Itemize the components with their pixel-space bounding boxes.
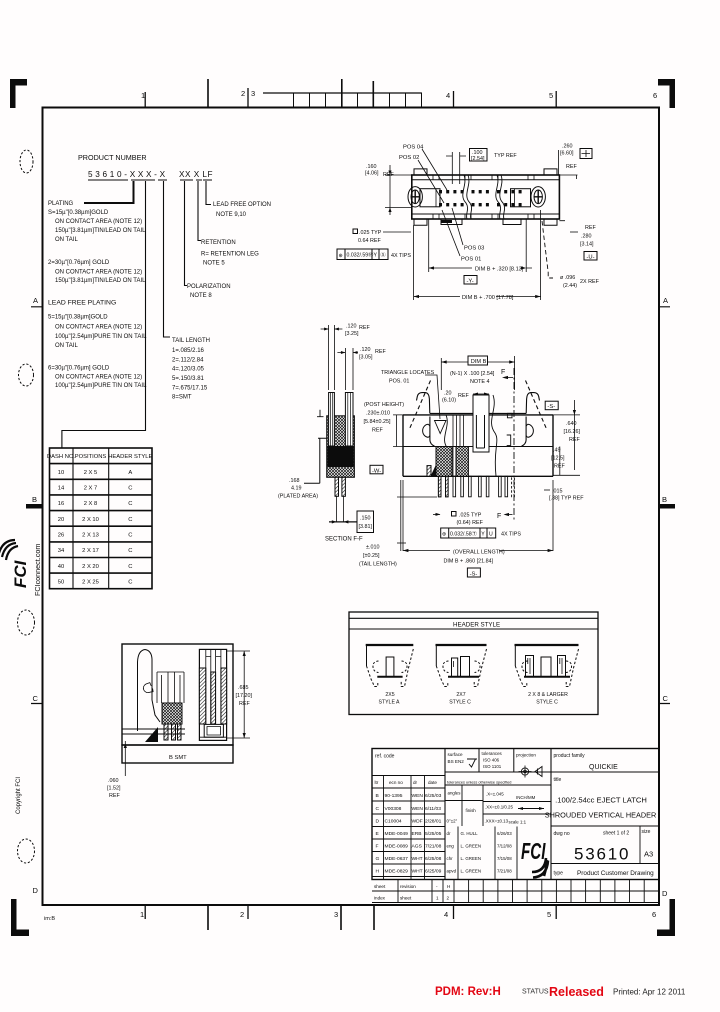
svg-text:2 X 17: 2 X 17: [82, 548, 99, 554]
dim .260 top right: [560, 144, 577, 171]
svg-text:(2.44): (2.44): [563, 283, 577, 289]
svg-text:DIM B + .860 [21.84]: DIM B + .860 [21.84]: [444, 559, 494, 565]
svg-text:150µ"[3.81µm]TIN/LEAD ON TAIL: 150µ"[3.81µm]TIN/LEAD ON TAIL: [55, 228, 146, 234]
latch plate right: [511, 189, 531, 207]
svg-text:A: A: [33, 296, 38, 305]
svg-text:ISO 1101: ISO 1101: [483, 764, 502, 769]
svg-text:SHROUDED VERTICAL HEADER: SHROUDED VERTICAL HEADER: [545, 811, 657, 820]
section FF pins: [335, 477, 339, 496]
bottom zone numbers: [140, 910, 656, 919]
svg-text:0.032/.58Ⓣ: 0.032/.58Ⓣ: [450, 530, 477, 538]
datum -S- right: [545, 401, 558, 410]
svg-text:(0.64) REF: (0.64) REF: [457, 520, 484, 526]
type cell: [554, 871, 564, 877]
svg-text:POS 02: POS 02: [399, 155, 419, 161]
svg-text:8=SMT: 8=SMT: [172, 395, 192, 401]
svg-text:±.010: ±.010: [366, 545, 379, 551]
front view hatched cut: [436, 447, 452, 477]
svg-text:Y: Y: [481, 532, 485, 538]
svg-text:[5.84±0.25]: [5.84±0.25]: [364, 419, 391, 425]
svg-text:5=.150/3.81: 5=.150/3.81: [172, 376, 205, 382]
svg-text:C: C: [663, 694, 669, 703]
section FF datum tick: [317, 410, 324, 417]
svg-text:4=.120/3.05: 4=.120/3.05: [172, 367, 205, 373]
svg-text:DIM B + .700 [17.78]: DIM B + .700 [17.78]: [462, 295, 514, 301]
svg-text:MDE-0637: MDE-0637: [385, 856, 409, 862]
front view triangle pos1: [435, 421, 447, 434]
svg-text:6=30µ"[0.76µm] GOLD: 6=30µ"[0.76µm] GOLD: [48, 366, 110, 372]
svg-text:0.032/.59Ⓜ: 0.032/.59Ⓜ: [347, 251, 374, 259]
svg-text:ON TAIL: ON TAIL: [55, 343, 78, 349]
svg-text:6/26/03: 6/26/03: [497, 831, 512, 836]
dim 025 typ pins: [457, 513, 484, 527]
svg-text:ø .096: ø .096: [560, 275, 575, 281]
svg-text:2=30µ"[0.76µm] GOLD: 2=30µ"[0.76µm] GOLD: [48, 260, 110, 266]
triangle locates label: [381, 370, 435, 385]
svg-text:-U-: -U-: [587, 255, 595, 261]
top zone numbers: [141, 89, 657, 100]
revision header: [375, 780, 438, 785]
svg-text:A: A: [128, 470, 132, 476]
front view latch left: [417, 393, 474, 447]
punch hole ellipse 4: [18, 839, 35, 863]
svg-text:ON CONTACT AREA (NOTE 12): ON CONTACT AREA (NOTE 12): [55, 219, 142, 225]
svg-text:16: 16: [58, 501, 64, 507]
lead free option label: [213, 202, 271, 218]
svg-text:53610: 53610: [574, 845, 630, 864]
dim .160 left: [365, 164, 394, 178]
svg-text:MDE-0829: MDE-0829: [385, 869, 409, 875]
svg-text:RETENTION: RETENTION: [201, 240, 236, 246]
svg-text:(PLATED AREA): (PLATED AREA): [278, 494, 318, 500]
svg-text:POSITIONS: POSITIONS: [75, 454, 107, 460]
bsmt smt section outer: [199, 649, 226, 740]
svg-text:[±0.25]: [±0.25]: [363, 553, 380, 559]
svg-text:2 X 25: 2 X 25: [82, 579, 99, 585]
dim 015 typ: [549, 489, 584, 502]
svg-text:ERB: ERB: [412, 831, 422, 837]
style C larger figure: [515, 645, 579, 687]
svg-text:-: -: [436, 884, 438, 889]
svg-text:.640: .640: [566, 421, 577, 427]
svg-text:[3.25]: [3.25]: [345, 331, 359, 337]
bsmt solder wedge: [145, 727, 158, 742]
svg-text:C: C: [128, 501, 132, 507]
corner mark bottom-left: [11, 899, 29, 936]
svg-text:DASH NO.: DASH NO.: [47, 454, 75, 460]
svg-text:34: 34: [58, 548, 65, 554]
style A figure: [366, 645, 414, 687]
datum -S- bottom: [467, 568, 480, 577]
header style box: [349, 612, 598, 715]
E-H approval cells: [458, 827, 517, 880]
svg-text:G: G: [376, 856, 380, 862]
section FF dim 120b: [359, 347, 386, 361]
svg-text:dr: dr: [413, 780, 418, 785]
svg-text:2: 2: [241, 89, 245, 98]
svg-text:PLATING: PLATING: [48, 201, 74, 207]
front view centre tower: [473, 395, 489, 452]
svg-text:apvd: apvd: [447, 869, 457, 874]
top view end tabs: [414, 169, 557, 225]
svg-text:HEADER STYLE: HEADER STYLE: [453, 622, 500, 629]
svg-text:FCI: FCI: [11, 559, 30, 588]
svg-text:angles: angles: [448, 791, 462, 796]
svg-text:REF: REF: [359, 325, 370, 331]
datum -U-: [584, 252, 597, 261]
svg-text:B: B: [662, 495, 667, 504]
bsmt dim 685: [227, 651, 250, 738]
svg-text:C: C: [128, 533, 132, 539]
svg-text:2 X 8: 2 X 8: [84, 501, 98, 507]
svg-text:4X TIPS: 4X TIPS: [501, 532, 521, 538]
svg-text:C: C: [33, 694, 39, 703]
front view latch right cutout: [526, 424, 533, 437]
svg-text:POS 04: POS 04: [403, 145, 424, 151]
svg-text:TYP REF: TYP REF: [494, 153, 517, 159]
dwg no cell: [639, 826, 641, 864]
svg-text:4X TIPS: 4X TIPS: [391, 253, 411, 259]
svg-text:B: B: [376, 793, 379, 799]
svg-text:.260: .260: [562, 144, 573, 150]
leader polarization: [185, 181, 188, 286]
svg-text:PRODUCT NUMBER: PRODUCT NUMBER: [78, 153, 147, 162]
svg-text:6: 6: [653, 91, 657, 100]
svg-text:150µ"[3.81µm]TIN/LEAD ON TAIL: 150µ"[3.81µm]TIN/LEAD ON TAIL: [55, 278, 146, 284]
bsmt pcb lines: [122, 729, 185, 734]
svg-text:0.64 REF: 0.64 REF: [358, 238, 381, 244]
svg-text:Copyright FCI: Copyright FCI: [16, 777, 22, 814]
top view body: [412, 175, 560, 219]
svg-text:AGS: AGS: [412, 844, 423, 850]
gdt frame top view: [337, 249, 388, 260]
svg-text:BS EN2: BS EN2: [448, 759, 465, 764]
svg-text:WEN: WEN: [412, 793, 424, 799]
title block outer: [372, 749, 659, 880]
svg-text:4: 4: [444, 910, 448, 919]
dim DIM B boxed: [468, 356, 488, 365]
top ruler bar: [263, 92, 422, 94]
svg-text:ecn no: ecn no: [389, 780, 403, 785]
svg-text:40: 40: [58, 564, 64, 570]
tail length label: [172, 338, 210, 401]
svg-text:dr: dr: [447, 831, 451, 836]
svg-text:PDM: Rev:H: PDM: Rev:H: [435, 986, 501, 998]
svg-text:S=15µ"[0.38µm]GOLD: S=15µ"[0.38µm]GOLD: [48, 210, 109, 216]
svg-text:STYLE C: STYLE C: [536, 700, 558, 706]
svg-text:.015: .015: [552, 489, 563, 495]
FCI logo left margin: [0, 540, 30, 588]
positions table grid: [50, 448, 153, 589]
section FF post right: [345, 393, 353, 447]
svg-text:WHT: WHT: [412, 869, 423, 875]
angles finish cells: [445, 785, 551, 826]
svg-text:A: A: [663, 296, 668, 305]
svg-text:[17.20]: [17.20]: [236, 693, 253, 699]
svg-text:6/11/03: 6/11/03: [425, 806, 441, 812]
contact pads row2: [439, 203, 522, 206]
screw right: [531, 187, 545, 207]
svg-text:Product Customer Drawing: Product Customer Drawing: [577, 870, 654, 877]
svg-text:title: title: [554, 777, 562, 783]
svg-text:7=.675/17.15: 7=.675/17.15: [172, 386, 208, 392]
svg-text:C: C: [128, 517, 132, 523]
bsmt side profile tower: [138, 650, 161, 732]
svg-text:-Y-: -Y-: [467, 279, 474, 285]
svg-text:-S-: -S-: [547, 404, 555, 410]
svg-text:4.19: 4.19: [291, 486, 302, 492]
svg-text:2 X 10: 2 X 10: [82, 517, 99, 523]
svg-text:7/12/08: 7/12/08: [497, 844, 512, 849]
svg-text:[12.5]: [12.5]: [551, 456, 565, 462]
svg-text:2 X 13: 2 X 13: [82, 533, 99, 539]
svg-text:1: 1: [140, 910, 144, 919]
dashed screw leader: [542, 221, 553, 278]
front view right detail: [507, 413, 512, 445]
leader retention: [198, 181, 201, 241]
svg-text:product family: product family: [554, 753, 586, 759]
svg-text:.230±.010: .230±.010: [366, 411, 390, 417]
tolerance cell: [482, 751, 503, 769]
svg-text:Released: Released: [549, 985, 604, 999]
overall length dim: [444, 550, 505, 565]
svg-text:.160: .160: [366, 164, 377, 170]
svg-text:[16.26]: [16.26]: [564, 429, 581, 435]
svg-text:DIM B + .320 [8.13]: DIM B + .320 [8.13]: [475, 267, 524, 273]
title block horizontals: [372, 772, 659, 788]
datum -Y-: [464, 276, 477, 285]
svg-text:Printed: Apr 12 2011: Printed: Apr 12 2011: [613, 988, 686, 997]
svg-text:L. GREEN: L. GREEN: [461, 844, 482, 849]
break lines top view: [463, 175, 472, 219]
svg-text:eng: eng: [447, 844, 455, 849]
svg-text:NOTE 8: NOTE 8: [190, 293, 212, 299]
svg-text:FCI: FCI: [521, 839, 546, 865]
svg-text:.20: .20: [444, 391, 452, 397]
svg-text:.060: .060: [108, 778, 119, 784]
svg-text:Ⓢ: Ⓢ: [381, 251, 386, 259]
svg-text:.120: .120: [360, 347, 371, 353]
latch plate left: [420, 189, 440, 207]
svg-text:2 X 20: 2 X 20: [82, 564, 99, 570]
gdt frame front view: [441, 528, 496, 538]
right zone letters and ticks: [662, 296, 669, 898]
dim 240 tower: [442, 391, 469, 404]
svg-text:STYLE C: STYLE C: [449, 700, 471, 706]
bsmt side hatched block: [162, 703, 182, 724]
svg-text:.120: .120: [346, 324, 357, 330]
leader tail-length: [164, 181, 171, 337]
svg-text:C: C: [376, 806, 380, 812]
svg-text:2=.112/2.84: 2=.112/2.84: [172, 358, 204, 364]
svg-text:F: F: [376, 844, 379, 850]
svg-text:WDF: WDF: [412, 819, 423, 825]
svg-text:revision: revision: [400, 884, 416, 889]
svg-text:F: F: [497, 513, 501, 520]
svg-text:C: C: [128, 486, 132, 492]
svg-text:LEAD FREE PLATING: LEAD FREE PLATING: [48, 300, 116, 307]
svg-text:B: B: [32, 495, 37, 504]
svg-text:NOTE 5: NOTE 5: [203, 261, 225, 267]
front view latch left cutout: [423, 424, 430, 437]
front view latch left dashed lever: [409, 381, 431, 431]
svg-text:-S-: -S-: [470, 571, 478, 577]
svg-text:(N-1) X .100 [2.54]: (N-1) X .100 [2.54]: [450, 371, 495, 377]
svg-text:14: 14: [58, 486, 65, 492]
svg-text:6: 6: [652, 910, 656, 919]
front view break lines: [445, 415, 450, 476]
svg-text:100µ"[2.54µm]PURE TIN ON TAIL: 100µ"[2.54µm]PURE TIN ON TAIL: [55, 334, 147, 340]
svg-text:2/28/01: 2/28/01: [425, 819, 442, 825]
svg-text:H: H: [447, 884, 450, 889]
svg-text:WEN: WEN: [412, 806, 424, 812]
svg-text:.280: .280: [581, 234, 592, 240]
svg-text:POLARIZATION: POLARIZATION: [187, 284, 231, 290]
svg-text:7/21/08: 7/21/08: [425, 844, 442, 850]
svg-text:LEAD FREE OPTION: LEAD FREE OPTION: [213, 202, 271, 208]
svg-text:WHT: WHT: [412, 856, 423, 862]
svg-text:DIM B: DIM B: [471, 359, 487, 365]
svg-text:POS 01: POS 01: [461, 257, 481, 263]
style C 2x7 figure: [436, 645, 487, 687]
svg-text:R= RETENTION LEG: R= RETENTION LEG: [201, 252, 259, 258]
svg-text:D: D: [662, 889, 668, 898]
svg-text:ON CONTACT AREA (NOTE 12): ON CONTACT AREA (NOTE 12): [55, 270, 142, 276]
dim .100 TYP REF: [470, 149, 488, 162]
svg-text:finish: finish: [466, 808, 477, 813]
bsmt gnd dim: [124, 741, 126, 776]
bottom zone ticks: [145, 905, 556, 919]
svg-text:-W-: -W-: [372, 468, 381, 474]
svg-text:ltr: ltr: [375, 780, 379, 785]
svg-text:date: date: [428, 780, 437, 785]
leader plating: [84, 181, 134, 203]
svg-text:2 X 5: 2 X 5: [84, 470, 98, 476]
svg-text:SECTION F-F: SECTION F-F: [325, 537, 363, 543]
svg-text:POS 03: POS 03: [464, 246, 484, 252]
dim B+.320: [429, 219, 527, 272]
punch hole ellipse 3: [18, 610, 35, 635]
dim B+.700: [414, 210, 541, 300]
front view posts: [453, 415, 464, 476]
underline segments: [88, 179, 212, 181]
svg-text:REF: REF: [585, 225, 596, 231]
front view body: [403, 415, 553, 476]
svg-text:sheet: sheet: [400, 896, 412, 901]
svg-text:3: 3: [334, 910, 338, 919]
svg-text:tolerances unless otherwise sp: tolerances unless otherwise specified: [447, 780, 511, 785]
svg-text:1: 1: [141, 91, 145, 100]
svg-text:dwg no: dwg no: [554, 831, 570, 837]
svg-text:[3.14]: [3.14]: [580, 242, 594, 248]
tail length tol: [359, 545, 397, 568]
svg-text:100µ"[2.54µm]PURE TIN ON TAIL: 100µ"[2.54µm]PURE TIN ON TAIL: [55, 383, 147, 389]
svg-text:(POST HEIGHT): (POST HEIGHT): [364, 402, 404, 408]
svg-text:.X=±.045: .X=±.045: [486, 792, 504, 797]
svg-text:⊕: ⊕: [442, 532, 446, 538]
dim 640: [564, 421, 581, 443]
svg-text:scale 1:1: scale 1:1: [509, 820, 527, 825]
svg-text:E: E: [376, 831, 380, 837]
svg-text:7/15/08: 7/15/08: [497, 856, 512, 861]
svg-text:10: 10: [58, 470, 64, 476]
svg-text:sheet: sheet: [374, 884, 386, 889]
svg-text:NOTE 9,10: NOTE 9,10: [216, 212, 247, 218]
svg-text:REF: REF: [372, 428, 383, 434]
svg-text:H: H: [376, 869, 380, 875]
svg-text:5=15µ"[0.38µm]GOLD: 5=15µ"[0.38µm]GOLD: [48, 315, 108, 321]
section FF dim 120a: [345, 324, 370, 338]
corner mark bottom-right: [657, 899, 675, 936]
section FF plated leader: [304, 438, 327, 483]
svg-text:(6.10): (6.10): [442, 398, 456, 404]
svg-text:4: 4: [446, 91, 450, 100]
svg-text:ON CONTACT AREA (NOTE 12): ON CONTACT AREA (NOTE 12): [55, 325, 142, 331]
svg-text:20: 20: [58, 517, 64, 523]
svg-text:2 X 7: 2 X 7: [84, 486, 98, 492]
svg-text:.025 TYP: .025 TYP: [459, 513, 482, 519]
svg-text:.XXX=±0.13: .XXX=±0.13: [485, 819, 509, 824]
svg-text:REF: REF: [239, 701, 250, 707]
svg-text:U: U: [489, 532, 493, 538]
front view pins: [438, 476, 507, 497]
svg-text:NOTE 4: NOTE 4: [470, 379, 489, 385]
svg-text:L. GREEN: L. GREEN: [461, 856, 482, 861]
svg-text:(OVERALL LENGTH): (OVERALL LENGTH): [453, 550, 505, 556]
svg-text:3: 3: [251, 89, 255, 98]
corner mark top-right: [658, 79, 675, 108]
svg-text:INCH/MM: INCH/MM: [516, 795, 536, 800]
svg-text:MDE-0049: MDE-0049: [385, 831, 409, 837]
svg-text:50: 50: [58, 579, 64, 585]
punch hole ellipse 1: [20, 150, 33, 173]
svg-text:.168: .168: [289, 478, 300, 484]
plating text block: [48, 201, 146, 284]
svg-text:C: C: [128, 579, 132, 585]
svg-text:C: C: [128, 564, 132, 570]
svg-text:chr: chr: [447, 856, 454, 861]
section FF post left: [329, 393, 335, 447]
ruler centre marks: [208, 79, 373, 107]
left zone letters and ticks: [32, 296, 39, 895]
svg-text:.49: .49: [553, 448, 561, 454]
svg-text:6/25/03: 6/25/03: [425, 793, 442, 799]
svg-text:D: D: [33, 886, 39, 895]
svg-text:2 X 8 & LARGER: 2 X 8 & LARGER: [528, 692, 568, 698]
svg-text:A3: A3: [644, 850, 653, 859]
svg-text:⊕: ⊕: [339, 253, 343, 259]
bsmt smt channel walls: [199, 668, 205, 724]
svg-text:HEADER STYLE: HEADER STYLE: [108, 454, 152, 460]
svg-text:[3.81]: [3.81]: [359, 524, 373, 530]
svg-text:5/25/05: 5/25/05: [425, 831, 442, 837]
svg-text:2X5: 2X5: [385, 692, 394, 698]
svg-text:90-1395: 90-1395: [385, 793, 403, 799]
surface cell: [448, 752, 465, 764]
svg-text:XX X LF: XX X LF: [179, 170, 213, 179]
svg-text:(TAIL LENGTH): (TAIL LENGTH): [359, 562, 397, 568]
section FF body hatched: [327, 416, 355, 478]
svg-text:.685: .685: [238, 685, 249, 691]
svg-text:POS. 01: POS. 01: [389, 379, 409, 385]
svg-text:surface: surface: [448, 752, 464, 757]
lead free plating block: [48, 300, 147, 390]
title block main verticals: [445, 749, 551, 880]
section FF plated area note: [278, 478, 318, 500]
svg-text:F: F: [501, 369, 505, 376]
sheet index strip: [372, 880, 659, 892]
svg-text:C: C: [128, 548, 132, 554]
